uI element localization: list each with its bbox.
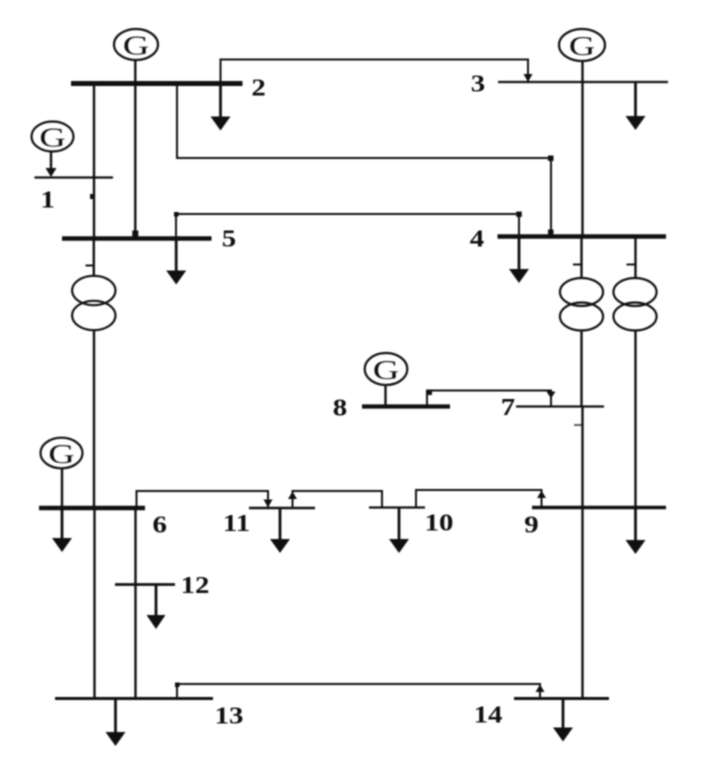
svg-text:6: 6 — [153, 511, 167, 538]
svg-text:G: G — [569, 31, 595, 61]
wire line 6-12 — [134, 508, 136, 585]
svg-text:G: G — [123, 30, 149, 60]
generator G at bus 1 — [32, 122, 74, 178]
load arrow at bus 12 — [147, 585, 166, 630]
svg-text:12: 12 — [181, 571, 210, 598]
transformer 4-9 — [613, 237, 656, 331]
bus 9 — [532, 506, 666, 510]
svg-text:5: 5 — [222, 225, 236, 252]
bus 5 — [62, 236, 212, 241]
junction dot at corner of line 2-4 — [548, 156, 554, 162]
transformer 4-7 — [560, 237, 603, 331]
generator G at bus 3 — [559, 29, 605, 82]
wire line 7-9 — [581, 407, 583, 508]
load arrow at bus 5 — [166, 239, 186, 285]
junction arrow at right corner of line 7-8 — [547, 392, 556, 399]
load arrow at bus 13 — [106, 699, 126, 747]
bus 13 — [55, 697, 213, 700]
wire line 10-11 — [293, 491, 383, 508]
wire line 13-14 — [177, 684, 540, 699]
svg-text:11: 11 — [223, 509, 250, 536]
bus 10 — [369, 506, 425, 508]
svg-text:3: 3 — [471, 70, 485, 97]
node on line below bus 1 — [90, 194, 95, 199]
wire line 6-13 — [93, 508, 95, 699]
bus 2 — [71, 81, 243, 86]
bus 11 — [249, 507, 315, 509]
wire line 4-7 below transformer — [580, 331, 582, 407]
bus 8 — [362, 404, 450, 408]
svg-text:13: 13 — [215, 702, 244, 729]
wire line 4-9 below transformer — [634, 331, 636, 508]
bus 4 — [498, 234, 667, 239]
junction arrow at bus 9 corner of line 9-10 — [537, 491, 546, 499]
load arrow at bus 9 — [626, 508, 646, 555]
junction dot where line 2-4 meets bus 4 — [548, 230, 554, 236]
svg-text:8: 8 — [333, 394, 347, 421]
load arrow at bus 6 — [52, 508, 72, 552]
junction tick at left corner of line 13-14 — [175, 683, 180, 688]
junction arrow at bus 14 corner of line 13-14 — [536, 685, 545, 693]
wire line 1-2 — [93, 84, 95, 178]
wire line 9-14 — [581, 508, 583, 699]
bus 12 — [115, 583, 175, 586]
load arrow at bus 2 — [211, 84, 231, 131]
wire line 7-8 — [427, 391, 551, 407]
load arrow at bus 14 — [553, 699, 573, 742]
svg-text:G: G — [373, 355, 399, 385]
svg-text:9: 9 — [524, 511, 538, 538]
junction tick at left corner of line 4-5 — [174, 212, 179, 217]
wire line 2-5 — [134, 84, 136, 239]
junction tick at bus 8 corner of line 7-8 — [428, 391, 432, 395]
svg-text:G: G — [39, 122, 65, 152]
wire line 2-4 — [177, 84, 551, 237]
generator G at bus 2 — [114, 29, 158, 84]
svg-text:10: 10 — [425, 509, 454, 536]
junction arrow at bus 11 corner of line 10-11 — [288, 492, 297, 500]
junction tick below bus 7 — [574, 424, 582, 426]
svg-text:2: 2 — [251, 74, 265, 101]
svg-text:7: 7 — [501, 393, 515, 420]
wire line 3-4 — [581, 82, 583, 237]
svg-text:1: 1 — [41, 186, 55, 213]
wire line 12-13 — [134, 585, 136, 699]
bus 6 — [39, 506, 145, 511]
svg-text:G: G — [48, 439, 74, 469]
bus 7 — [516, 405, 604, 407]
junction dot at corner of line 4-5 — [516, 212, 522, 218]
wire line 2-3 — [221, 60, 529, 84]
wire line 6-11 — [137, 491, 269, 508]
wire line 1-5 — [93, 178, 95, 239]
transformer 5-6 — [72, 239, 115, 509]
bus 14 — [514, 697, 609, 700]
bus 1 — [35, 176, 114, 178]
load arrow at bus 3 — [626, 82, 646, 130]
load arrow at bus 4 — [509, 237, 529, 284]
svg-text:4: 4 — [470, 225, 484, 252]
svg-text:14: 14 — [474, 701, 503, 728]
generator G at bus 6 — [41, 438, 83, 508]
load arrow at bus 11 — [270, 508, 290, 553]
node on line 2-5 at bus 5 — [132, 231, 138, 237]
wire line 4-5 — [176, 214, 519, 239]
bus 3 — [498, 81, 668, 83]
generator G at bus 8 — [365, 353, 408, 407]
junction arrow at bus 11 end of line 6-11 — [264, 500, 273, 508]
load arrow at bus 10 — [389, 508, 409, 554]
wire line 9-10 — [416, 490, 542, 508]
junction arrow at bus 3 end of line 2-3 — [524, 74, 533, 82]
